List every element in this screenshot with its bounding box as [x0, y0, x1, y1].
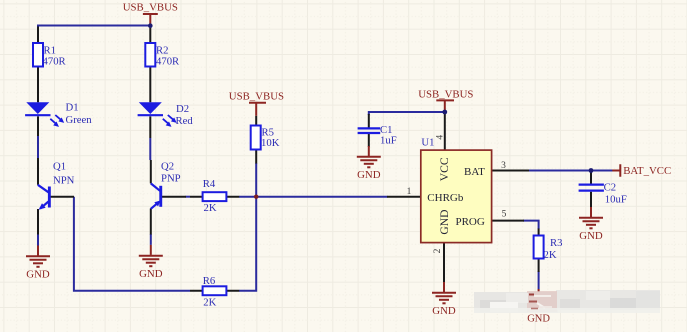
- svg-text:GND: GND: [432, 305, 456, 317]
- svg-text:R4: R4: [203, 178, 216, 190]
- svg-text:1uF: 1uF: [380, 135, 397, 147]
- svg-text:D2: D2: [176, 103, 189, 115]
- svg-text:BAT_VCC: BAT_VCC: [623, 165, 671, 177]
- svg-text:D1: D1: [66, 102, 79, 114]
- svg-text:BAT: BAT: [464, 166, 485, 178]
- svg-text:NPN: NPN: [53, 174, 75, 186]
- svg-text:U1: U1: [421, 136, 434, 148]
- svg-text:470R: 470R: [43, 56, 67, 68]
- svg-text:Q1: Q1: [53, 160, 66, 172]
- svg-text:2: 2: [433, 248, 443, 253]
- svg-text:Green: Green: [66, 114, 93, 126]
- svg-text:GND: GND: [579, 230, 603, 242]
- svg-text:R3: R3: [550, 237, 562, 249]
- svg-text:Red: Red: [176, 115, 194, 127]
- svg-text:4: 4: [435, 135, 445, 140]
- svg-text:R1: R1: [44, 44, 56, 56]
- svg-text:R6: R6: [203, 275, 216, 287]
- svg-text:R2: R2: [156, 44, 168, 56]
- svg-text:USB_VBUS: USB_VBUS: [123, 1, 178, 13]
- svg-text:PNP: PNP: [161, 172, 181, 184]
- svg-text:GND: GND: [438, 209, 451, 234]
- svg-text:GND: GND: [139, 268, 163, 280]
- svg-text:USB_VBUS: USB_VBUS: [418, 88, 473, 100]
- svg-text:10uF: 10uF: [605, 193, 627, 205]
- svg-text:C2: C2: [604, 181, 616, 193]
- svg-text:GND: GND: [527, 314, 550, 325]
- svg-text:470R: 470R: [156, 56, 180, 68]
- svg-text:VCC: VCC: [438, 157, 451, 181]
- svg-text:GND: GND: [357, 169, 381, 181]
- svg-text:CHRGb: CHRGb: [427, 192, 464, 204]
- svg-text:2K: 2K: [204, 202, 217, 214]
- svg-text:Q2: Q2: [161, 160, 174, 172]
- svg-text:2K: 2K: [203, 296, 216, 308]
- svg-text:5: 5: [502, 210, 507, 220]
- svg-text:1: 1: [407, 187, 412, 197]
- svg-text:2K: 2K: [544, 249, 557, 261]
- svg-text:GND: GND: [26, 269, 50, 281]
- svg-text:3: 3: [501, 161, 506, 171]
- svg-text:PROG: PROG: [455, 216, 484, 228]
- svg-text:10K: 10K: [261, 137, 280, 149]
- svg-text:USB_VBUS: USB_VBUS: [229, 90, 284, 102]
